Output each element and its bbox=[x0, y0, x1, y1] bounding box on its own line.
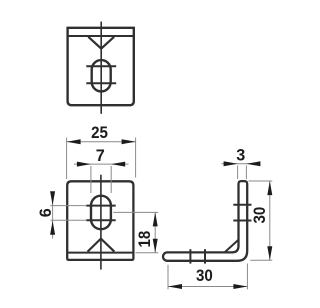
side view horizontal leg slot tick left bbox=[189, 249, 191, 263]
dimension 25 extension line right bbox=[135, 138, 137, 178]
dimension 18 extension line upper bbox=[113, 211, 158, 213]
front view bend line bbox=[67, 252, 133, 254]
dimension 30 bottom arrow left bbox=[168, 284, 182, 289]
svg-text:30: 30 bbox=[196, 267, 213, 285]
dimension 3 extension line left bbox=[237, 166, 239, 180]
dimension 6 arrow lower bbox=[50, 221, 55, 235]
dimension 7 arrow left bbox=[77, 162, 91, 167]
top view vertical centerline bbox=[100, 22, 102, 114]
dimension 6 tail line bbox=[52, 192, 54, 239]
svg-text:7: 7 bbox=[96, 147, 105, 165]
dimension 3 arrow left bbox=[224, 161, 238, 166]
side view vertical leg slot tick lower bbox=[233, 220, 251, 222]
top view flange edge line bbox=[68, 35, 134, 37]
top view rib notch V bbox=[88, 37, 114, 49]
svg-text:3: 3 bbox=[236, 147, 245, 165]
side view bend diagonal bbox=[225, 240, 238, 252]
dimension 3 extension line right bbox=[245, 166, 247, 180]
dimension 30 bottom arrow right bbox=[233, 284, 247, 289]
dimension 6 extension line lower bbox=[50, 219, 86, 221]
top view slot tangent line lower bbox=[86, 82, 116, 84]
dimension 30 right extension line lower bbox=[250, 259, 272, 261]
dimension 30 right extension line upper bbox=[248, 180, 272, 182]
dimension 30 bottom extension line right bbox=[246, 264, 248, 290]
dimension 7 extension line left bbox=[90, 166, 92, 193]
dimension 7 extension line right bbox=[110, 166, 112, 193]
side view vertical leg slot tick upper bbox=[233, 204, 251, 206]
dimension 18 arrow lower bbox=[153, 239, 158, 253]
svg-text:6: 6 bbox=[37, 208, 55, 217]
dimension 18 extension line lower bbox=[136, 252, 159, 254]
side view L-profile outline bbox=[163, 181, 247, 261]
dimension 6 extension line upper bbox=[50, 205, 86, 207]
dimension 25 line bbox=[67, 141, 136, 143]
front view slot tangent line lower bbox=[86, 219, 115, 221]
dimension 25 extension line left bbox=[66, 138, 68, 180]
dimension 3 tail line bbox=[222, 163, 261, 165]
svg-text:25: 25 bbox=[91, 124, 108, 142]
dimension 3 arrow right bbox=[246, 161, 260, 166]
front view rib triangle bbox=[88, 239, 115, 252]
svg-text:18: 18 bbox=[136, 231, 154, 248]
dimension 18 arrow upper bbox=[153, 212, 158, 226]
dimension 30 bottom line bbox=[168, 286, 247, 288]
top view outline bbox=[68, 28, 134, 105]
front view vertical centerline bbox=[100, 175, 102, 270]
dimension 30 right arrow lower bbox=[267, 246, 272, 260]
side view horizontal leg slot tick right bbox=[204, 249, 206, 263]
dimension 30 bottom extension line left bbox=[167, 265, 169, 290]
dimension 25 arrow left bbox=[67, 139, 81, 144]
dimension 30 right arrow upper bbox=[267, 181, 272, 195]
dimension 18 line bbox=[154, 212, 156, 252]
dimension 25 arrow right bbox=[122, 139, 136, 144]
dimension 6 arrow upper bbox=[50, 191, 55, 205]
front view slot bbox=[91, 196, 111, 230]
dimension 7 tail line bbox=[74, 163, 129, 165]
dimension 30 right line bbox=[269, 181, 271, 260]
top view slot bbox=[92, 60, 111, 91]
front view slot tangent line upper bbox=[86, 205, 115, 207]
svg-text:30: 30 bbox=[251, 207, 269, 224]
front view outline bbox=[67, 181, 133, 260]
top view slot tangent line upper bbox=[86, 65, 116, 67]
dimension 7 arrow right bbox=[111, 162, 125, 167]
